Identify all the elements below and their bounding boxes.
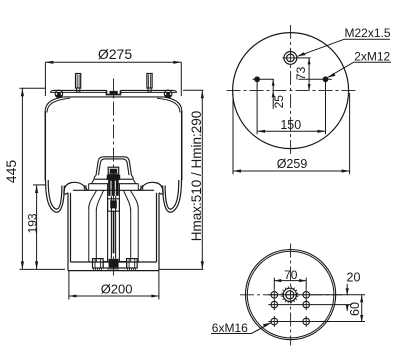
plate center notch + air valve — [107, 90, 121, 94]
svg-text:73: 73 — [294, 66, 308, 80]
svg-text:Ø275: Ø275 — [98, 46, 132, 62]
dimension 25 — [272, 79, 275, 109]
svg-text:Ø259: Ø259 — [277, 157, 308, 171]
air fitting M22x1.5 — [284, 52, 297, 65]
piston cap (dome) — [89, 157, 139, 191]
svg-text:2xM12: 2xM12 — [354, 49, 390, 63]
svg-text:60: 60 — [348, 302, 362, 316]
svg-text:Hmax:510 / Hmin:290: Hmax:510 / Hmin:290 — [189, 111, 204, 242]
shaft mid nut — [108, 199, 120, 211]
piston ribs — [89, 191, 138, 263]
centerline vertical bottom view — [290, 244, 292, 346]
centerline vertical left view — [113, 79, 115, 276]
center shaft through piston — [108, 184, 120, 263]
svg-text:445: 445 — [3, 160, 19, 184]
dimension 445 — [20, 88, 66, 269]
piston bottom — [68, 262, 159, 271]
bottom nut left — [93, 259, 104, 268]
dimension 73 — [297, 58, 311, 91]
center hole bottom view — [283, 288, 296, 301]
M12 stud right — [323, 76, 329, 82]
shaft threaded rod — [113, 211, 115, 253]
dimension Ø200 — [69, 271, 159, 300]
bottom nut right — [127, 259, 138, 268]
svg-text:20: 20 — [347, 270, 361, 284]
shaft bottom dark nut — [109, 259, 119, 268]
stud right (top plate) — [147, 74, 152, 93]
piston bottom circle outer — [246, 250, 336, 340]
rolling lobe left — [46, 180, 65, 212]
M12 stud left — [254, 76, 260, 82]
shaft upper dark section — [108, 180, 119, 196]
piston top flange — [64, 182, 163, 194]
svg-text:M22x1.5: M22x1.5 — [345, 26, 391, 40]
svg-text:6xM16: 6xM16 — [212, 321, 248, 335]
centerline vertical top view — [290, 25, 292, 156]
dimension Hmax:510 / Hmin:290 — [160, 90, 204, 269]
bolt hole vertical ticks — [274, 289, 306, 327]
rivet right on plate — [164, 90, 172, 98]
dimension 60 — [360, 295, 363, 322]
bellows right edge — [181, 111, 183, 180]
piston bottom circle inner — [247, 251, 334, 338]
dimension Ø275 — [45, 61, 181, 96]
shaft big nut — [107, 175, 121, 180]
rolling lobe right — [163, 180, 182, 212]
piston skirt walls — [64, 193, 163, 271]
bottom center plate — [103, 262, 127, 268]
bolt holes 6xM16 — [271, 292, 310, 325]
dimension 150 — [257, 82, 325, 134]
svg-text:70: 70 — [284, 268, 298, 282]
dimension Ø259 — [233, 93, 350, 174]
stud left (top plate) — [76, 74, 81, 93]
dimension 70 — [274, 278, 306, 290]
centerline horizontal bottom view — [240, 294, 342, 296]
svg-text:Ø200: Ø200 — [101, 282, 133, 297]
svg-text:25: 25 — [272, 95, 286, 109]
dimension 20 — [346, 284, 349, 312]
svg-text:150: 150 — [280, 118, 301, 132]
dimension 193 — [33, 185, 46, 270]
center hole knurl ticks — [281, 286, 298, 303]
bottom thread hatch — [94, 268, 136, 271]
centerline horizontal top view — [227, 90, 356, 92]
top plate circle Ø259 — [233, 33, 349, 149]
rivet left on plate — [55, 90, 63, 98]
bead plate (top plate) — [45, 90, 182, 112]
bellows left edge — [44, 111, 46, 180]
bolt hole rows lines — [268, 295, 365, 322]
svg-text:193: 193 — [25, 213, 39, 233]
cap center nut — [108, 167, 119, 174]
